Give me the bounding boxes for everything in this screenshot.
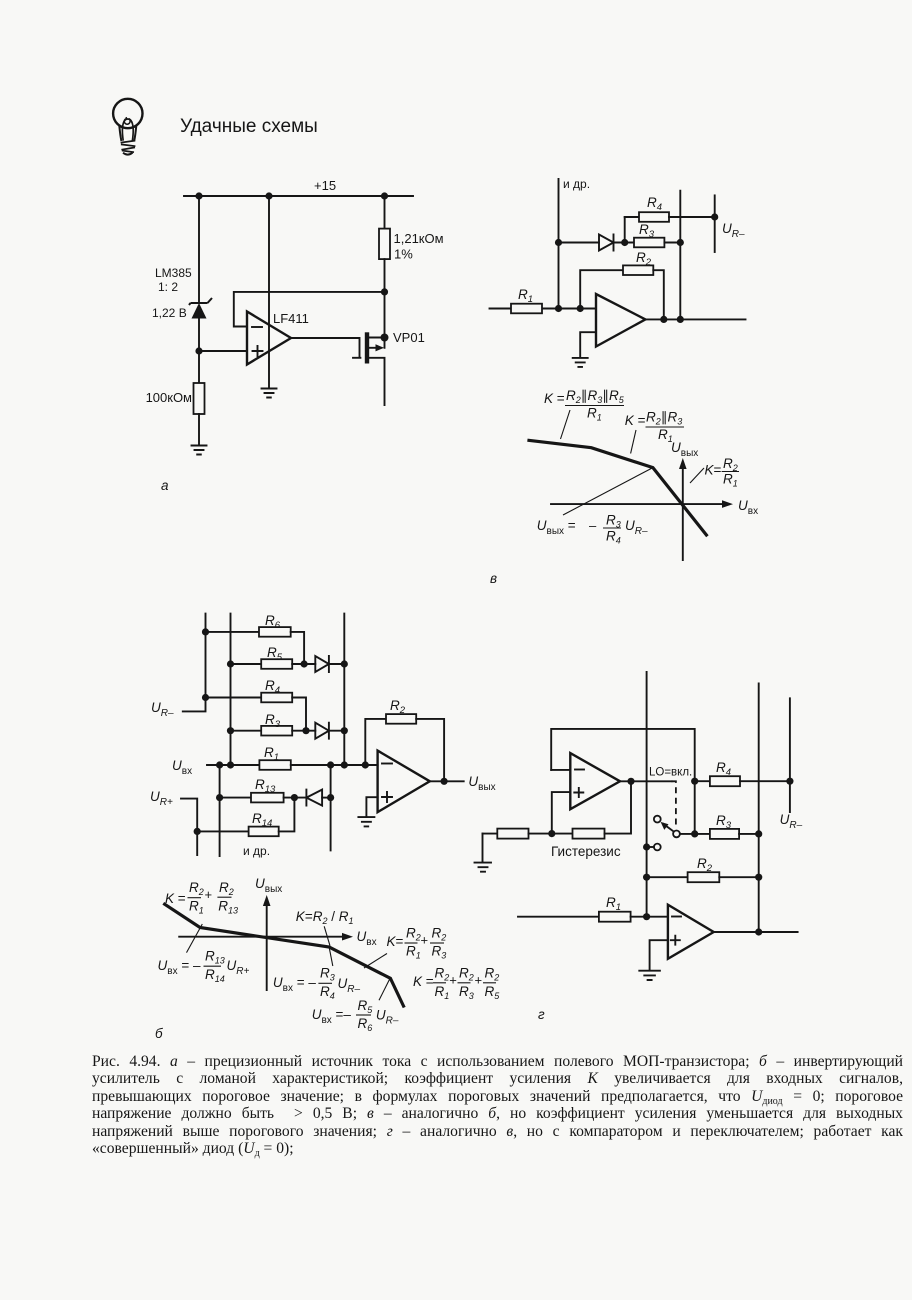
formula Uvh=-R13/R14 UR+ xyxy=(158,949,250,985)
svg-text:LM385: LM385 xyxy=(155,266,192,280)
svg-text:1,22 B: 1,22 B xyxy=(152,306,187,320)
node R3 right xyxy=(677,239,684,246)
node top-R4 xyxy=(691,778,698,785)
diode D13 (reversed) xyxy=(306,790,322,806)
resistor R3 xyxy=(634,238,664,248)
node V2-R5 xyxy=(227,660,234,667)
svg-text:Uвых: Uвых xyxy=(671,440,698,459)
input wire R1 row xyxy=(518,916,599,918)
node diode-R3-R4 xyxy=(621,239,628,246)
node plus-hyst xyxy=(548,830,555,837)
node out-etc2 xyxy=(677,316,684,323)
UR- stub xyxy=(789,698,791,812)
node UR+-R14 xyxy=(194,828,201,835)
resistor R3 xyxy=(231,730,262,732)
ground A1 xyxy=(192,446,207,455)
svg-text:R2: R2 xyxy=(189,880,204,897)
ground G2 xyxy=(639,971,660,980)
svg-text:и др.: и др. xyxy=(563,177,590,191)
resistor R1 xyxy=(259,760,290,770)
formula K2 xyxy=(625,410,684,445)
transfer curve xyxy=(163,903,404,1007)
plus marker xyxy=(382,792,392,802)
svg-text:R1: R1 xyxy=(606,895,621,913)
output wire comparator xyxy=(620,780,672,782)
resistor 1,21kOm xyxy=(384,196,386,229)
svg-text:VP01: VP01 xyxy=(393,330,425,345)
node R6-R5-diode xyxy=(301,660,308,667)
svg-text:R3: R3 xyxy=(606,513,621,530)
svg-text:K=: K= xyxy=(705,463,722,478)
svg-text:–: – xyxy=(589,518,597,533)
wire common to node xyxy=(680,833,710,835)
node right-bus-sum xyxy=(341,761,348,768)
svg-text:Uвх: Uвх xyxy=(738,498,758,517)
node R13-R14 xyxy=(291,794,298,801)
svg-text:R2∥R3: R2∥R3 xyxy=(646,410,682,427)
svg-text:100кОм: 100кОм xyxy=(146,390,192,405)
wire vertical V4 xyxy=(330,765,332,850)
diode D2 xyxy=(599,235,614,251)
minus marker xyxy=(382,763,392,765)
pointer bend3 xyxy=(379,979,390,1001)
switch lever arrow xyxy=(661,822,674,832)
svg-text:R5: R5 xyxy=(485,984,501,1001)
plus input wire xyxy=(552,792,571,834)
formula Uvh=-R5/R6 UR- xyxy=(312,998,399,1033)
svg-text:R3: R3 xyxy=(320,966,335,983)
svg-text:+15: +15 xyxy=(314,178,336,193)
minus marker xyxy=(575,769,584,771)
svg-text:Uвх: Uвх xyxy=(172,758,192,777)
formula Uvyh threshold xyxy=(537,513,648,546)
+15 rail wire xyxy=(184,195,413,197)
plus marker xyxy=(253,346,263,356)
svg-text:R1: R1 xyxy=(518,287,533,305)
pointer bend2 xyxy=(329,948,333,966)
node R4-R3-diode xyxy=(302,727,309,734)
node R3-right xyxy=(341,727,348,734)
transfer curve xyxy=(527,440,707,536)
svg-text:K =: K = xyxy=(544,391,565,406)
minus marker xyxy=(252,326,262,328)
svg-text:K=: K= xyxy=(387,934,404,949)
wire to mosfet source xyxy=(384,292,386,338)
svg-text:R4: R4 xyxy=(320,984,335,1001)
node diode row left xyxy=(555,239,562,246)
svg-text:R2∥R3∥R5: R2∥R3∥R5 xyxy=(566,388,625,405)
svg-text:R5: R5 xyxy=(358,998,374,1015)
resistor R3 xyxy=(710,829,739,839)
node V3-input xyxy=(216,761,223,768)
plus marker xyxy=(574,788,583,797)
svg-text:R1: R1 xyxy=(189,899,204,916)
node V2-R3 xyxy=(227,727,234,734)
formula K3 xyxy=(705,456,740,489)
svg-text:в: в xyxy=(490,571,497,586)
svg-text:+: + xyxy=(449,973,457,988)
plus input wire xyxy=(650,940,668,970)
pointer f2 xyxy=(631,430,636,454)
svg-text:K =: K = xyxy=(413,974,434,989)
wire etc vertical xyxy=(558,179,560,309)
resistor R1 xyxy=(599,912,631,922)
gate foot xyxy=(353,357,360,359)
svg-text:R3: R3 xyxy=(432,944,447,961)
svg-text:Uвх = –: Uвх = – xyxy=(273,975,316,994)
minus input wire xyxy=(551,769,570,771)
svg-text:R1: R1 xyxy=(435,984,450,1001)
resistor R14 xyxy=(197,830,248,832)
x axis xyxy=(551,503,727,505)
svg-text:Удачные схемы: Удачные схемы xyxy=(180,116,318,137)
wire resistor to ground xyxy=(198,414,200,445)
pointer f1 xyxy=(561,410,571,439)
svg-text:K=R2 / R1: K=R2 / R1 xyxy=(296,909,354,926)
op-amp U2 xyxy=(596,294,645,347)
node V3-R13 xyxy=(216,794,223,801)
formula K = R2/R1 + R2/R3 xyxy=(387,926,447,961)
formula K = R2/R1+R2/R3+R2/R5 xyxy=(413,966,500,1002)
resistor 100kOm xyxy=(194,383,205,414)
wire vertical right bus xyxy=(343,614,345,765)
op-amp U3 xyxy=(378,751,430,813)
svg-text:Uвх: Uвх xyxy=(357,929,377,948)
long bus V2 xyxy=(758,683,760,932)
svg-text:R2: R2 xyxy=(459,966,474,983)
node source xyxy=(381,334,389,342)
svg-text:K =: K = xyxy=(625,413,646,428)
svg-text:R4: R4 xyxy=(647,195,662,213)
wire vertical V1 (UR- bus) xyxy=(183,614,206,712)
svg-text:R2: R2 xyxy=(485,966,500,983)
svg-text:R2: R2 xyxy=(219,880,234,897)
node plus-input xyxy=(195,347,202,354)
svg-text:б: б xyxy=(155,1026,163,1041)
svg-text:1: 2: 1: 2 xyxy=(158,280,178,294)
svg-text:R2: R2 xyxy=(435,966,450,983)
node rail-mid xyxy=(265,192,272,199)
svg-text:UR–: UR– xyxy=(780,812,803,831)
node rail-left xyxy=(195,192,202,199)
UR- stub xyxy=(714,195,716,252)
resistor R2 xyxy=(647,876,688,878)
wire mid branch (op-amp V-) xyxy=(268,196,270,388)
svg-text:R4: R4 xyxy=(606,529,621,546)
node input-R2 xyxy=(577,305,584,312)
zener D1 LM385 xyxy=(189,298,212,319)
svg-text:R3: R3 xyxy=(459,984,474,1001)
svg-text:R2: R2 xyxy=(406,926,421,943)
resistor R4 xyxy=(695,780,710,782)
node V1-R4 xyxy=(202,694,209,701)
pointer K3 xyxy=(364,954,387,969)
svg-text:R1: R1 xyxy=(587,406,602,423)
output wire xyxy=(645,318,745,320)
node rail-right xyxy=(381,192,388,199)
ground V1 xyxy=(573,358,588,367)
wire zener to node xyxy=(198,318,200,383)
resistor R6 xyxy=(206,631,260,633)
svg-text:R4: R4 xyxy=(716,760,731,778)
long bus V1 xyxy=(646,672,648,917)
op-amp U5 xyxy=(668,905,714,959)
formula Uvh=-R3/R4 UR- xyxy=(273,966,361,1002)
op-amp U1 LF411 xyxy=(247,312,291,365)
wire to diode xyxy=(559,242,600,244)
feedback top wire xyxy=(551,729,695,834)
node feedback xyxy=(381,288,388,295)
dashed control wire xyxy=(672,781,676,827)
lightbulb icon xyxy=(113,99,142,155)
node D13-V4 xyxy=(327,794,334,801)
svg-text:+: + xyxy=(475,973,483,988)
wire up to R4 xyxy=(624,217,626,243)
node R3-bus2 xyxy=(755,830,762,837)
resistor R4 xyxy=(206,697,262,699)
comparator U4 xyxy=(570,753,620,809)
node R1-bus1 xyxy=(643,913,650,920)
svg-text:K =: K = xyxy=(165,891,186,906)
svg-text:R2: R2 xyxy=(432,926,447,943)
wire diode to node xyxy=(614,242,635,244)
resistor R13 xyxy=(220,797,251,799)
svg-text:UR–: UR– xyxy=(338,976,361,995)
svg-text:Uвых: Uвых xyxy=(255,876,282,895)
node V4-sum xyxy=(327,761,334,768)
wire throw down to bus xyxy=(647,846,654,848)
svg-text:R14: R14 xyxy=(205,967,225,984)
output wire xyxy=(714,931,798,933)
svg-text:R1: R1 xyxy=(723,472,738,489)
node R2-sum xyxy=(362,761,369,768)
op-amp output wire to gate xyxy=(291,338,360,358)
transistor Q1 VP01 channel bar xyxy=(365,332,369,363)
x axis xyxy=(179,936,347,938)
wire vertical V3 xyxy=(219,765,221,856)
node bus-throw xyxy=(643,843,650,850)
svg-text:LF411: LF411 xyxy=(273,311,309,326)
switch common xyxy=(673,831,680,838)
formula K1 xyxy=(544,388,625,423)
ground B1 xyxy=(358,817,374,826)
resistor R5 xyxy=(231,663,262,665)
svg-text:+: + xyxy=(421,933,429,948)
ground A2 (op-amp) xyxy=(262,389,277,398)
drain lead top xyxy=(369,337,385,339)
pointer f3 xyxy=(690,468,704,483)
svg-text:UR–: UR– xyxy=(625,518,648,537)
node R2-bus2 xyxy=(755,874,762,881)
plus input wire xyxy=(366,797,377,817)
svg-text:R2: R2 xyxy=(697,856,713,874)
svg-text:Гистерезис: Гистерезис xyxy=(551,844,621,859)
resistor R2 feedback xyxy=(365,719,386,765)
resistor R2 branch xyxy=(580,270,623,308)
svg-text:Uвх =–: Uвх =– xyxy=(312,1007,352,1026)
pointer K-mid xyxy=(324,926,330,946)
svg-text:UR+: UR+ xyxy=(150,789,173,808)
node switch-R3 xyxy=(691,830,698,837)
svg-text:г: г xyxy=(538,1007,545,1022)
node bus1-R2 xyxy=(643,874,650,881)
input wire xyxy=(490,308,597,310)
svg-text:1%: 1% xyxy=(394,247,413,262)
node V2-input xyxy=(227,761,234,768)
node out-R2 xyxy=(660,316,667,323)
input wire R1 row xyxy=(207,764,259,766)
source lead bottom xyxy=(369,358,385,405)
resistor R-hysteresis xyxy=(573,829,605,839)
svg-text:R1: R1 xyxy=(406,944,421,961)
resistor R1 xyxy=(511,304,542,314)
minus marker xyxy=(672,916,681,918)
svg-text:Uвх = –: Uвх = – xyxy=(158,958,201,977)
wire vertical V2 xyxy=(230,614,232,765)
node R4 to UR- xyxy=(711,213,718,220)
y axis xyxy=(266,902,268,990)
svg-text:а: а xyxy=(161,478,169,493)
wire etc2 vertical xyxy=(679,191,681,320)
svg-text:R2: R2 xyxy=(723,456,738,473)
body arrow xyxy=(369,340,385,351)
formula K = R2/R1 + R2/R13 xyxy=(165,880,238,916)
y axis xyxy=(682,465,684,560)
plus marker xyxy=(671,936,680,945)
svg-text:Uвых =: Uвых = xyxy=(537,518,576,537)
ground G1 xyxy=(475,834,492,872)
switch throw up xyxy=(654,816,661,823)
svg-text:R13: R13 xyxy=(218,899,238,916)
svg-text:и др.: и др. xyxy=(243,844,270,858)
switch throw down xyxy=(654,844,661,851)
svg-text:UR–: UR– xyxy=(376,1008,399,1027)
pointer bend1 xyxy=(187,924,203,953)
svg-text:+: + xyxy=(205,887,213,902)
svg-text:R6: R6 xyxy=(358,1016,373,1033)
node R4-UR- xyxy=(786,778,793,785)
node V1-R6 xyxy=(202,628,209,635)
wire left branch upper xyxy=(198,196,200,303)
resistor Rg (to ground) xyxy=(483,833,498,835)
output wire xyxy=(430,780,464,782)
svg-text:UR+: UR+ xyxy=(227,958,250,977)
node comp-out xyxy=(627,778,634,785)
node input-etc xyxy=(555,305,562,312)
diode D5 xyxy=(315,656,329,672)
feedback wire xyxy=(234,292,385,327)
UR+ lead wire xyxy=(181,799,197,855)
node out-bus2 xyxy=(755,928,762,935)
resistor R4 xyxy=(625,216,639,218)
svg-text:UR–: UR– xyxy=(722,221,745,240)
svg-text:UR–: UR– xyxy=(151,700,174,719)
svg-text:R13: R13 xyxy=(205,949,225,966)
node R5-right xyxy=(341,660,348,667)
plus input wire xyxy=(580,332,596,357)
svg-text:1,21кОм: 1,21кОм xyxy=(394,231,444,246)
svg-text:LO=вкл.: LO=вкл. xyxy=(649,767,692,779)
node output xyxy=(441,778,448,785)
svg-text:Uвых: Uвых xyxy=(468,774,495,793)
pointer line long xyxy=(563,468,653,515)
wire node to op-amp plus xyxy=(199,350,247,352)
diode D3 xyxy=(315,723,329,739)
